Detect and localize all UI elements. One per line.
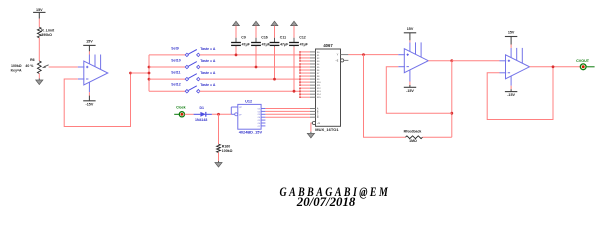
- op-amp U1: [78, 45, 108, 100]
- svg-text:Y: Y: [337, 53, 339, 57]
- power +15V (U1): [83, 39, 95, 45]
- u12 output pins: [258, 108, 266, 127]
- wire inner feedback U2: [386, 67, 452, 114]
- svg-text:47μF: 47μF: [300, 42, 309, 46]
- svg-text:Set11: Set11: [171, 71, 180, 75]
- mux select pins A B C D: [310, 108, 319, 120]
- power +15V (U2): [404, 27, 416, 33]
- ground (pot): [36, 78, 43, 84]
- wire R160 to ground: [218, 153, 220, 161]
- wire select C: [265, 113, 310, 115]
- wire 15V to R_Limit: [38, 19, 40, 28]
- svg-text:-15V: -15V: [507, 93, 515, 97]
- wire select B: [265, 110, 310, 112]
- svg-text:1MΩ: 1MΩ: [409, 139, 417, 143]
- svg-text:20/07/2018: 20/07/2018: [296, 195, 356, 209]
- mux 4067 MUX_16TO1 body: [315, 43, 340, 132]
- mux enable pin ~E: [335, 59, 348, 63]
- svg-text:Set9: Set9: [171, 46, 178, 50]
- counter U12 4024BD_15V body: [238, 100, 263, 135]
- power -15V (U1): [83, 101, 95, 107]
- svg-text:U12: U12: [245, 100, 252, 104]
- wire U3 output: [530, 66, 581, 68]
- switch Set12: [149, 83, 216, 93]
- wire U2 output: [428, 60, 452, 62]
- capacitor C16 47uF: [251, 21, 271, 67]
- u12 clock input pins: [231, 107, 242, 116]
- svg-text:15V: 15V: [407, 27, 414, 31]
- wire junction to R160: [218, 114, 220, 144]
- svg-text:15V: 15V: [86, 39, 93, 43]
- wire input pin busses: [299, 51, 301, 98]
- capacitor C12 47uF: [289, 21, 309, 91]
- node C16 to row: [255, 66, 258, 69]
- wire feedback U3: [487, 67, 553, 120]
- wire row 2: [200, 66, 300, 68]
- svg-text:Set10: Set10: [171, 59, 180, 63]
- svg-text:Key=A: Key=A: [11, 68, 22, 72]
- node C12 to row: [293, 90, 296, 93]
- node C9 to row: [235, 54, 238, 57]
- node U3 output: [552, 65, 555, 68]
- op-amp U2: [398, 33, 428, 88]
- wire row 4: [200, 90, 300, 92]
- ground (R160): [215, 161, 222, 167]
- wire pot wiper to op-amp U1: [49, 66, 78, 68]
- text title GABBAGABI@EM: [280, 184, 391, 209]
- wire pot to ground: [38, 74, 40, 79]
- svg-text:-15V: -15V: [406, 89, 414, 93]
- power +15V (U3): [505, 31, 517, 37]
- wire row 3: [200, 78, 300, 80]
- wire select D: [265, 116, 310, 118]
- diode D1 1N4148: [194, 106, 212, 122]
- svg-text:R6: R6: [30, 58, 35, 62]
- node U2 output: [450, 59, 453, 62]
- wire R_Limit to pot: [38, 38, 40, 61]
- svg-text:4024BD_15V: 4024BD_15V: [239, 129, 263, 134]
- svg-text:Clock: Clock: [176, 106, 186, 110]
- svg-text:4067: 4067: [323, 43, 333, 48]
- connector CVOUT: [576, 59, 594, 70]
- wire U1 output to switch bus: [131, 55, 150, 91]
- svg-text:15V: 15V: [508, 31, 515, 35]
- connector Clock: [174, 106, 185, 117]
- wire ~G to ground: [310, 123, 312, 132]
- wire D1 to U12: [212, 113, 231, 115]
- svg-text:390kΩ: 390kΩ: [41, 33, 52, 37]
- wire U2 to U3: [452, 60, 500, 62]
- capacitor C11 47uF: [270, 21, 290, 79]
- node inner loop tap: [450, 112, 453, 115]
- svg-text:Taste = A: Taste = A: [200, 59, 216, 63]
- svg-text:40 %: 40 %: [25, 64, 34, 68]
- svg-text:Taste = A: Taste = A: [200, 83, 216, 87]
- svg-text:-15V: -15V: [86, 102, 94, 106]
- wire Y to op-amp U2: [348, 54, 398, 56]
- wire U2 output drop: [451, 61, 453, 138]
- svg-text:MUX_16TO1: MUX_16TO1: [315, 127, 339, 132]
- node clock junction: [217, 113, 220, 116]
- svg-text:R_Limit: R_Limit: [41, 28, 55, 32]
- svg-text:CVOUT: CVOUT: [576, 59, 590, 63]
- svg-text:~G: ~G: [317, 123, 320, 125]
- capacitor C9 47uF: [231, 21, 251, 55]
- svg-text:Rfeedback: Rfeedback: [404, 129, 422, 133]
- svg-text:Set12: Set12: [171, 83, 180, 87]
- svg-text:100kΩ: 100kΩ: [11, 64, 22, 68]
- svg-text:D1: D1: [200, 106, 205, 110]
- svg-text:100kΩ: 100kΩ: [222, 149, 233, 153]
- ground (mux): [307, 132, 314, 138]
- svg-text:Taste = A: Taste = A: [200, 47, 216, 51]
- svg-text:C16: C16: [261, 35, 267, 39]
- wire Clock to D1: [185, 113, 194, 115]
- node C11 to row: [273, 78, 276, 81]
- svg-text:47μF: 47μF: [262, 42, 271, 46]
- svg-text:1N4148: 1N4148: [195, 118, 207, 122]
- svg-text:15V: 15V: [36, 8, 43, 12]
- wire Rfeedback right leg: [423, 136, 452, 138]
- mux input pins X0-X15: [300, 52, 321, 99]
- wire feedback U1: [64, 73, 130, 127]
- switch Set11: [149, 71, 216, 81]
- power -15V (U2): [404, 87, 416, 93]
- power -15V (U3): [505, 92, 517, 98]
- switch Set9: [149, 46, 216, 56]
- svg-text:R160: R160: [222, 145, 230, 149]
- resistor R_Limit 390k: [37, 27, 55, 38]
- svg-text:Taste = A: Taste = A: [200, 71, 216, 75]
- potentiometer R6 100k 40% Key=A: [11, 58, 49, 73]
- resistor R160 100k: [217, 144, 233, 153]
- node U1 output: [129, 72, 132, 75]
- svg-text:47μF: 47μF: [280, 42, 289, 46]
- wire row 1: [200, 54, 300, 56]
- wire select A: [265, 108, 310, 110]
- wire Rfeedback left leg: [364, 55, 406, 138]
- node switch bus taps: [148, 66, 151, 81]
- mux inhibit pin ~G: [311, 121, 320, 125]
- svg-text:~E: ~E: [335, 60, 338, 62]
- node Y junction: [362, 53, 365, 56]
- svg-text:C9: C9: [241, 35, 246, 39]
- mux output pin Y: [337, 53, 349, 57]
- svg-text:C11: C11: [280, 35, 286, 39]
- svg-text:C12: C12: [299, 35, 305, 39]
- op-amp U3: [500, 37, 530, 92]
- switch Set10: [149, 59, 216, 69]
- resistor Rfeedback 1M: [404, 129, 423, 142]
- svg-text:47μF: 47μF: [242, 42, 251, 46]
- power +15V rail (top-left): [33, 8, 45, 19]
